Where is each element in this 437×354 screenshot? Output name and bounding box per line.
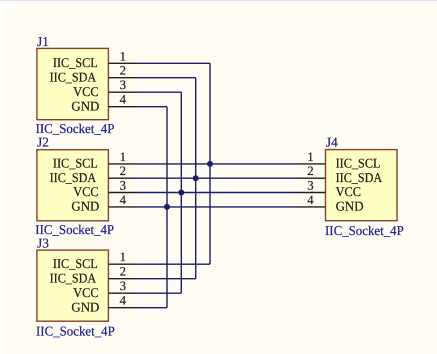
connector J3 body — [37, 250, 109, 321]
wire J1 pin4 to GND bus — [138, 106, 167, 108]
wire J3 pin3 to VCC bus — [138, 292, 181, 294]
svg-text:2: 2 — [120, 64, 126, 78]
svg-text:VCC: VCC — [73, 184, 99, 199]
svg-text:VCC: VCC — [73, 84, 99, 99]
svg-text:4: 4 — [120, 294, 127, 308]
svg-text:2: 2 — [307, 164, 313, 178]
J1 pin 4 stub — [108, 106, 138, 108]
svg-text:J3: J3 — [37, 235, 49, 250]
wire J1 pin2 to SDA bus — [138, 77, 195, 79]
wire J1 pin1 to SCL bus — [138, 62, 210, 64]
svg-text:J4: J4 — [326, 134, 338, 149]
svg-text:1: 1 — [120, 250, 126, 264]
J2 pin 4 stub — [108, 206, 138, 208]
svg-text:3: 3 — [120, 78, 126, 92]
svg-text:1: 1 — [307, 150, 313, 164]
svg-text:GND: GND — [336, 199, 364, 214]
svg-text:3: 3 — [120, 179, 126, 193]
svg-text:J1: J1 — [37, 34, 49, 49]
J1 pin 2 stub — [108, 77, 138, 79]
svg-text:2: 2 — [120, 164, 126, 178]
J2 pin 3 stub — [108, 192, 138, 194]
J3 pin 4 stub — [108, 307, 138, 309]
wire J2 pin3 to J4 pin3 (VCC row) — [138, 192, 295, 194]
svg-text:GND: GND — [71, 98, 99, 113]
svg-text:4: 4 — [120, 93, 127, 107]
svg-text:J2: J2 — [37, 135, 49, 150]
junction SDA bus / row2 — [193, 175, 199, 181]
svg-text:1: 1 — [120, 49, 126, 63]
J1 pin 3 stub — [108, 91, 138, 93]
svg-text:IIC_Socket_4P: IIC_Socket_4P — [36, 323, 115, 338]
vertical GND bus wire — [166, 107, 168, 308]
svg-text:IIC_Socket_4P: IIC_Socket_4P — [325, 223, 404, 238]
svg-text:1: 1 — [120, 150, 126, 164]
J3 pin 2 stub — [108, 278, 138, 280]
J3 pin 3 stub — [108, 292, 138, 294]
svg-text:3: 3 — [120, 279, 126, 293]
J2 pin 2 stub — [108, 177, 138, 179]
vertical SDA bus wire — [195, 78, 197, 279]
J4 pin 2 stub — [296, 177, 326, 179]
J4 pin 4 stub — [296, 206, 326, 208]
J4 pin 3 stub — [296, 192, 326, 194]
wire J3 pin2 to SDA bus — [138, 278, 195, 280]
wire J2 pin2 to J4 pin2 (SDA row) — [138, 177, 295, 179]
J1 pin 1 stub — [108, 62, 138, 64]
J2 pin 1 stub — [108, 163, 138, 165]
wire J3 pin4 to GND bus — [138, 307, 167, 309]
svg-text:IIC_SDA: IIC_SDA — [336, 170, 383, 185]
svg-text:IIC_SDA: IIC_SDA — [50, 170, 97, 185]
svg-text:2: 2 — [120, 265, 126, 279]
svg-text:IIC_SCL: IIC_SCL — [53, 256, 98, 271]
wire J2 pin4 to J4 pin4 (GND row) — [138, 206, 295, 208]
svg-text:GND: GND — [71, 199, 99, 214]
svg-text:4: 4 — [120, 193, 127, 207]
connector J1 body — [37, 48, 109, 119]
junction GND bus / row4 — [164, 204, 170, 210]
wire J3 pin1 to SCL bus — [138, 263, 210, 265]
svg-text:3: 3 — [307, 179, 313, 193]
svg-text:VCC: VCC — [336, 184, 362, 199]
connector J2 body — [37, 150, 109, 221]
J3 pin 1 stub — [108, 263, 138, 265]
vertical SCL bus wire — [209, 63, 211, 264]
vertical VCC bus wire — [180, 92, 182, 293]
J4 pin 1 stub — [296, 163, 326, 165]
svg-text:IIC_SCL: IIC_SCL — [53, 55, 98, 70]
junction VCC bus / row3 — [178, 190, 184, 196]
svg-text:4: 4 — [307, 193, 314, 207]
wire J1 pin3 to VCC bus — [138, 91, 181, 93]
svg-text:GND: GND — [71, 299, 99, 314]
junction SCL bus / row1 — [207, 161, 213, 167]
connector J4 body — [326, 150, 398, 221]
svg-text:IIC_SCL: IIC_SCL — [336, 156, 381, 171]
svg-text:IIC_SCL: IIC_SCL — [53, 156, 98, 171]
svg-text:IIC_SDA: IIC_SDA — [50, 270, 97, 285]
svg-text:VCC: VCC — [73, 285, 99, 300]
wire J2 pin1 to J4 pin1 (SCL row) — [138, 163, 295, 165]
svg-text:IIC_SDA: IIC_SDA — [50, 69, 97, 84]
